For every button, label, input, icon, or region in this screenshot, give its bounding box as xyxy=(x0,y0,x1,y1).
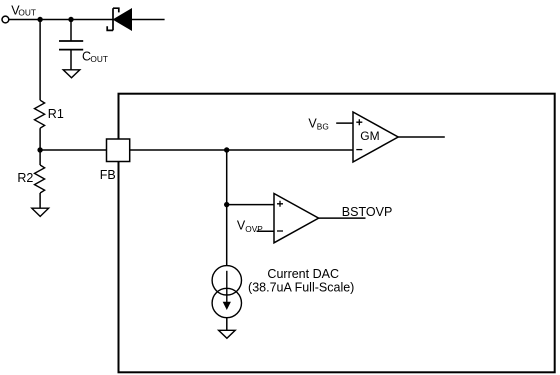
wire COUT bottom xyxy=(70,50,72,70)
label COUT xyxy=(82,50,108,64)
svg-text:OUT: OUT xyxy=(18,8,36,18)
wire divider to FB pin xyxy=(40,149,106,151)
svg-text:FB: FB xyxy=(100,168,116,182)
junction FB divider node xyxy=(37,147,42,152)
node VOUT label xyxy=(11,4,36,18)
wire FB to GM minus xyxy=(130,149,353,151)
wire diode cathode stub xyxy=(132,19,165,21)
label FB xyxy=(100,168,116,182)
label current DAC xyxy=(248,267,354,294)
ground current source xyxy=(219,330,236,338)
svg-text:BG: BG xyxy=(317,122,329,132)
op-amp GM xyxy=(353,112,398,162)
wire GM output xyxy=(398,136,445,138)
wire source to ground xyxy=(226,318,228,331)
diode D1 schottky xyxy=(107,8,131,30)
label VBG xyxy=(308,117,328,132)
IC boundary rectangle xyxy=(119,94,555,373)
ground COUT xyxy=(63,70,80,78)
wire R2 to ground xyxy=(39,193,41,208)
svg-text:BSTOVP: BSTOVP xyxy=(342,205,392,219)
wire to OVP plus input xyxy=(227,204,274,206)
label R2 xyxy=(17,171,33,185)
svg-text:OVP: OVP xyxy=(245,224,263,234)
wire VOUT to R1 xyxy=(39,20,41,101)
wire COUT top xyxy=(70,20,72,42)
svg-text:OUT: OUT xyxy=(90,54,108,64)
junction COUT tap xyxy=(68,17,73,22)
label R1 xyxy=(48,107,64,121)
current source I1 xyxy=(212,266,241,318)
wire R1 to R2 xyxy=(39,128,41,165)
junction OVP plus tap xyxy=(224,202,229,207)
label BSTOVP xyxy=(342,205,392,219)
wire VBG to GM plus xyxy=(336,122,353,124)
wire OVP branch vertical xyxy=(226,150,228,266)
capacitor COUT xyxy=(59,41,83,50)
svg-text:(38.7uA Full-Scale): (38.7uA Full-Scale) xyxy=(248,280,354,294)
svg-text:GM: GM xyxy=(360,129,379,143)
wire OVP output xyxy=(319,217,366,219)
svg-text:R2: R2 xyxy=(17,171,33,185)
resistor R1 xyxy=(35,100,45,128)
resistor R2 xyxy=(35,165,45,193)
junction R1 tap xyxy=(37,17,42,22)
comparator OVP xyxy=(274,194,319,243)
terminal VOUT xyxy=(2,16,9,23)
pin FB box xyxy=(107,139,130,162)
svg-text:R1: R1 xyxy=(48,107,64,121)
ground R2 xyxy=(32,208,49,216)
svg-text:Current DAC: Current DAC xyxy=(267,267,339,281)
wire VOVP to OVP minus xyxy=(257,230,274,232)
label VOVP xyxy=(237,219,263,235)
junction OVP tap xyxy=(224,147,229,152)
wire VOUT top rail xyxy=(9,19,113,21)
